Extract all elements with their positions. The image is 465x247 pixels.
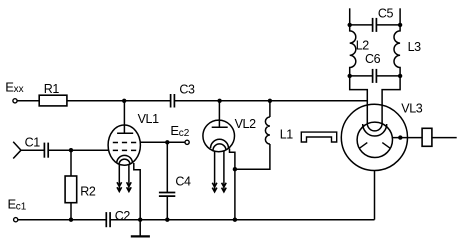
capacitor C6 [373, 69, 377, 83]
capacitor C3 [171, 94, 175, 108]
label Ec1 [8, 197, 27, 213]
capacitor C1 [44, 143, 48, 158]
tube VL1 (pentode) [108, 125, 140, 165]
svg-text:C3: C3 [179, 83, 195, 97]
svg-text:C1: C1 [25, 135, 41, 149]
wire C4 bottom [166, 196, 168, 220]
wire tank to VL3 cathode left [350, 76, 368, 124]
wire L1 top lead [269, 101, 271, 117]
svg-text:C4: C4 [175, 174, 191, 188]
output window rectangle [422, 128, 432, 146]
svg-text:L2: L2 [356, 39, 370, 53]
inductor L1 [265, 117, 270, 144]
capacitor C5 [373, 18, 377, 32]
wire VL1 cathode to ground junction [134, 163, 140, 220]
heater leads VL1 (arrows) [117, 165, 131, 192]
node Ec2 (screen supply terminal) [185, 140, 189, 144]
svg-text:R2: R2 [80, 185, 96, 199]
wire VL1 anode drop [123, 101, 125, 133]
resistor R2 [65, 176, 77, 203]
wire C2 to VL3 (bottom rail) [110, 219, 374, 221]
inductor L2 [350, 25, 356, 76]
svg-text:L1: L1 [280, 128, 294, 142]
node D (junction R2 top) [69, 148, 73, 152]
wire R2 bottom [70, 203, 72, 220]
wire L1 bottom branch [235, 144, 270, 169]
wire tank bottom left segment [350, 75, 373, 77]
node A (junction VL1 anode) [122, 99, 126, 103]
resistor R1 [39, 95, 67, 106]
svg-text:R1: R1 [44, 82, 60, 96]
heater leads VL2 (arrows) [212, 151, 226, 192]
node M (tank bottom left) [348, 74, 352, 78]
node O (VL3 anode junction) [398, 135, 402, 139]
label Ec2 [170, 123, 189, 139]
VL3 cathode arc [363, 124, 387, 136]
svg-text:C6: C6 [365, 52, 381, 66]
node J (junction VL2 cathode bottom rail) [233, 218, 237, 222]
VL3 anode (inner circle) [357, 122, 392, 157]
capacitor C2 [106, 212, 110, 227]
node E (junction R2 bottom) [69, 218, 73, 222]
wire tank bottom right segment [376, 75, 400, 77]
capacitor C4 [159, 193, 175, 197]
wire Exx to R1 [17, 100, 39, 102]
wire tank top stub left [349, 8, 351, 25]
VL3 heater loop [367, 124, 382, 131]
node Ec1 (bias terminal) [14, 218, 18, 222]
wire C4 top [166, 142, 168, 192]
tube VL2 (diode) [203, 120, 235, 152]
inductor L3 [394, 25, 400, 76]
wire VL2 anode drop [218, 101, 220, 128]
wire tank to VL3 cathode right [382, 76, 400, 124]
svg-text:c2: c2 [179, 128, 190, 139]
wire chevron to C1 [21, 149, 44, 151]
wire R2 top [70, 150, 72, 176]
wire R1 to C3 (top rail left) [67, 100, 170, 102]
svg-text:VL2: VL2 [235, 117, 256, 131]
svg-text:xx: xx [14, 84, 24, 95]
node H (junction C4 bottom) [165, 218, 169, 222]
node I (junction cathode / L1 branch) [233, 167, 237, 171]
wire C3 to VL3 (top rail right) [174, 100, 367, 102]
input chevron (antenna input) [13, 142, 21, 159]
wire tank top stub right [399, 8, 401, 25]
node C (junction L1 top) [268, 99, 272, 103]
svg-text:VL1: VL1 [138, 112, 159, 126]
coupling bracket [301, 132, 336, 142]
svg-text:c1: c1 [16, 202, 27, 213]
wire tank top left segment [350, 24, 373, 26]
svg-text:VL3: VL3 [401, 102, 422, 116]
svg-text:L3: L3 [408, 40, 422, 54]
VL3 inner mark left [360, 143, 368, 149]
wire tank top right segment [376, 24, 400, 26]
node K (tank top left) [348, 23, 352, 27]
node Exx (input terminal) [13, 99, 17, 103]
wire VL3 bottom lead [374, 171, 376, 220]
wire VL3 anode output [393, 137, 457, 139]
wire C1 to VL1 grid [48, 149, 108, 151]
tube VL3 (envelope) [341, 104, 407, 170]
wire VL1 screen grid to Ec2 [140, 141, 185, 143]
node L (tank top right) [398, 23, 402, 27]
node B (junction VL2 anode) [217, 99, 221, 103]
node N (tank bottom right) [398, 74, 402, 78]
wire VL2 cathode down [230, 149, 235, 220]
node G (junction C4 top) [165, 140, 169, 144]
node F (ground junction) [138, 218, 142, 222]
VL3 inner mark right [382, 143, 390, 149]
svg-text:C2: C2 [115, 209, 131, 223]
ground [131, 220, 150, 237]
svg-text:C5: C5 [378, 7, 394, 21]
label Exx [5, 79, 23, 95]
wire Ec1 to C2 [18, 219, 106, 221]
